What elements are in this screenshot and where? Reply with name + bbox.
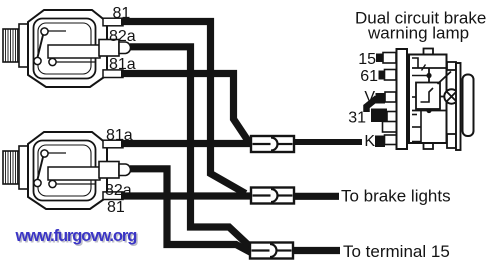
lamp body [424,49,434,55]
wire to brake lights [294,193,339,200]
svg-text:To terminal 15: To terminal 15 [343,242,450,261]
svg-text:31: 31 [348,110,366,127]
svg-text:81: 81 [113,5,131,22]
connector T2 [251,188,294,204]
svg-text:To brake lights: To brake lights [341,187,451,206]
svg-text:81a: 81a [109,56,136,73]
jumper V to 31 [367,98,378,112]
svg-text:warning lamp: warning lamp [367,24,469,43]
relay box U1 [416,83,440,110]
lever [438,72,452,85]
pressure switch S2 (bottom) [3,132,131,209]
wire S2-81a to connector T1 [121,140,251,147]
svg-text:81: 81 [107,199,125,216]
svg-text:82a: 82a [105,182,132,199]
wire to terminal 15 [294,247,340,254]
wire S2-82a to terminal-15 line [130,169,252,253]
lamp bulb [440,96,444,98]
svg-text:61: 61 [360,68,378,85]
svg-text:82a: 82a [109,28,136,45]
lamp holder flange [447,62,456,70]
svg-text:www.furgovw.org: www.furgovw.org [15,227,137,245]
unlabelled pin [383,122,397,133]
wire S1-82a to terminal-15 line [130,47,253,249]
connector T3 [250,243,293,259]
wire K out [294,139,362,145]
pressure switch S1 (top) [3,10,131,87]
lamp connector bar [397,49,408,149]
svg-text:81a: 81a [106,127,133,144]
svg-text:15: 15 [358,51,376,68]
connector T1 [251,136,294,152]
wire S1-81a to K line [121,74,249,142]
wire S1-81 to brake lights line [121,22,246,194]
svg-text:K: K [364,133,375,150]
wire S2-81 to connector T2 [121,192,251,199]
lamp inner wiring [412,58,418,68]
